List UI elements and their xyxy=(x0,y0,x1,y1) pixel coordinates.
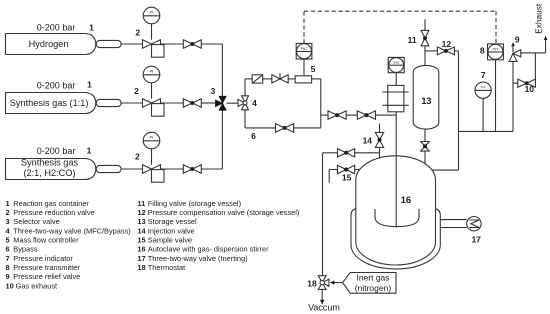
svg-text:Pressure relief valve: Pressure relief valve xyxy=(13,272,80,281)
svg-text:18: 18 xyxy=(137,263,145,272)
svg-text:9: 9 xyxy=(515,34,520,44)
svg-text:5: 5 xyxy=(311,64,316,74)
svg-text:(nitrogen): (nitrogen) xyxy=(355,283,392,293)
svg-text:10: 10 xyxy=(6,281,14,290)
svg-text:Vaccum: Vaccum xyxy=(308,302,340,312)
svg-text:Thermostat: Thermostat xyxy=(148,263,185,272)
svg-text:Storage vessel: Storage vessel xyxy=(148,217,197,226)
svg-text:15: 15 xyxy=(137,236,145,245)
svg-text:3: 3 xyxy=(211,86,216,96)
svg-text:1: 1 xyxy=(6,199,10,208)
svg-text:Synthesis gas (1:1): Synthesis gas (1:1) xyxy=(10,98,89,108)
svg-text:0-200 bar: 0-200 bar xyxy=(37,146,76,156)
svg-text:12: 12 xyxy=(137,208,145,217)
svg-text:12: 12 xyxy=(442,39,452,49)
svg-text:Selector valve: Selector valve xyxy=(13,217,59,226)
svg-text:Mass flow controller: Mass flow controller xyxy=(13,236,79,245)
svg-text:1: 1 xyxy=(89,23,94,33)
svg-text:17: 17 xyxy=(471,235,481,245)
svg-text:11: 11 xyxy=(408,35,417,45)
svg-text:16: 16 xyxy=(137,245,145,254)
svg-text:16: 16 xyxy=(401,195,412,206)
svg-text:4: 4 xyxy=(252,98,257,108)
svg-text:Three-two-way valve (MFC/Bypas: Three-two-way valve (MFC/Bypass) xyxy=(13,226,130,235)
svg-text:18: 18 xyxy=(307,279,317,289)
svg-text:TIC: TIC xyxy=(393,61,399,65)
svg-text:Pressure compensation valve (s: Pressure compensation valve (storage ves… xyxy=(148,208,300,217)
svg-text:7: 7 xyxy=(481,70,486,80)
svg-text:Gas exhaust: Gas exhaust xyxy=(16,281,58,290)
svg-text:PIC: PIC xyxy=(301,47,308,51)
svg-text:14: 14 xyxy=(137,226,146,235)
svg-text:Sample valve: Sample valve xyxy=(148,236,192,245)
svg-text:8: 8 xyxy=(480,45,485,55)
svg-text:Three-two-way valve (Inerting): Three-two-way valve (Inerting) xyxy=(148,254,248,263)
svg-text:Exhaust: Exhaust xyxy=(533,3,543,34)
svg-text:0-200 bar: 0-200 bar xyxy=(37,22,76,32)
svg-text:PIT: PIT xyxy=(492,48,499,52)
svg-text:2: 2 xyxy=(6,208,10,217)
svg-text:15: 15 xyxy=(342,172,352,182)
svg-text:PI: PI xyxy=(150,69,154,74)
svg-text:14: 14 xyxy=(363,136,373,146)
svg-text:0-200 bar: 0-200 bar xyxy=(37,80,76,90)
svg-text:Reaction gas container: Reaction gas container xyxy=(13,199,89,208)
svg-text:Synthesis gas: Synthesis gas xyxy=(21,158,79,168)
svg-text:13: 13 xyxy=(137,217,145,226)
svg-text:2: 2 xyxy=(135,28,140,38)
svg-text:1: 1 xyxy=(87,145,92,155)
svg-text:Pressure reduction valve: Pressure reduction valve xyxy=(13,208,94,217)
svg-text:6: 6 xyxy=(6,245,10,254)
svg-text:11: 11 xyxy=(137,199,145,208)
svg-text:Bypass: Bypass xyxy=(13,245,38,254)
svg-text:17: 17 xyxy=(137,254,145,263)
svg-text:Hydrogen: Hydrogen xyxy=(29,39,69,49)
svg-text:Pressure transmitter: Pressure transmitter xyxy=(13,263,80,272)
svg-text:8: 8 xyxy=(6,263,10,272)
svg-text:Injection valve: Injection valve xyxy=(148,226,195,235)
svg-text:Filling valve (storage vessel): Filling valve (storage vessel) xyxy=(148,199,241,208)
svg-text:Pressure indicator: Pressure indicator xyxy=(13,254,73,263)
svg-text:PI: PI xyxy=(150,10,154,15)
svg-text:7: 7 xyxy=(6,254,10,263)
svg-text:13: 13 xyxy=(421,96,431,106)
svg-text:PI: PI xyxy=(481,85,485,90)
svg-text:5: 5 xyxy=(6,236,10,245)
svg-text:2: 2 xyxy=(135,151,140,161)
svg-text:Inert gas: Inert gas xyxy=(356,273,389,283)
svg-text:6: 6 xyxy=(251,131,256,141)
svg-text:1: 1 xyxy=(87,80,92,90)
svg-text:(2:1, H2:CO): (2:1, H2:CO) xyxy=(23,168,75,178)
svg-text:3: 3 xyxy=(6,217,10,226)
svg-text:PI: PI xyxy=(150,135,154,140)
svg-text:9: 9 xyxy=(6,272,10,281)
svg-text:Autoclave with gas- dispersion: Autoclave with gas- dispersion stirrer xyxy=(148,245,269,254)
svg-text:2: 2 xyxy=(134,86,139,96)
svg-text:10: 10 xyxy=(525,84,535,94)
